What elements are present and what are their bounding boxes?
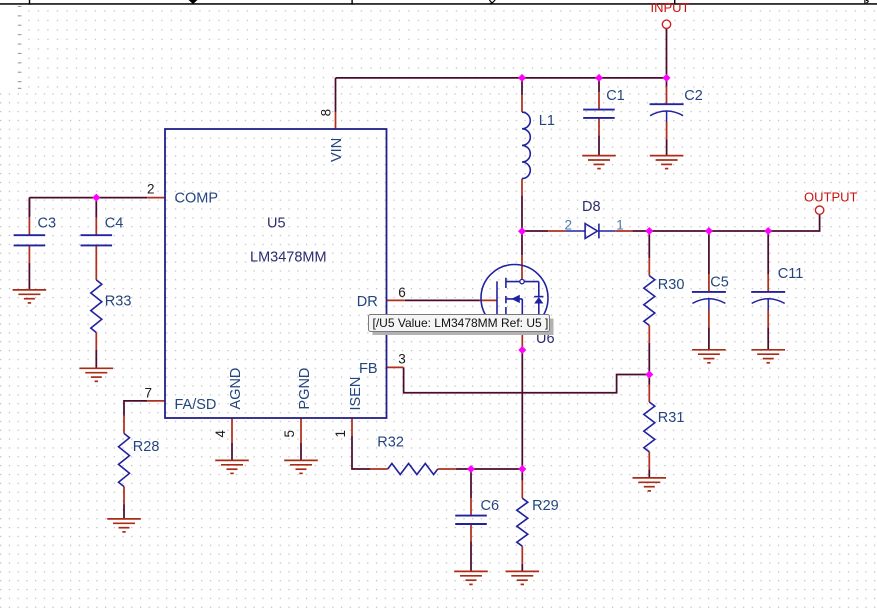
capacitor C6 plates [455, 516, 487, 524]
ground R28 [107, 519, 141, 532]
ground R33 [80, 368, 114, 381]
svg-text:4: 4 [213, 430, 228, 438]
capacitor C3 plates [14, 235, 46, 245]
svg-text:C2: C2 [684, 88, 703, 104]
svg-text:C5: C5 [710, 275, 729, 291]
inductor L1 leads [521, 95, 523, 195]
svg-text:6: 6 [398, 285, 406, 300]
page border line [0, 3, 877, 4]
ground AGND [215, 460, 249, 473]
diode D8 [566, 224, 616, 239]
svg-text:FB: FB [359, 361, 378, 377]
svg-text:VIN: VIN [329, 138, 345, 162]
junction node OUT/C11 [764, 227, 772, 235]
junction node R32/C6 [467, 465, 475, 473]
junction node SW/L1/D8 [518, 227, 526, 235]
svg-text:L1: L1 [539, 113, 555, 129]
resistor R28 leads [123, 504, 125, 519]
junction node OUT/C5 [705, 227, 713, 235]
capacitor C6 leads [470, 469, 472, 498]
svg-text:LM3478MM: LM3478MM [250, 249, 327, 265]
ground R29 [506, 571, 540, 584]
svg-text:R32: R32 [377, 434, 404, 450]
svg-text:R28: R28 [133, 439, 160, 455]
svg-text:2: 2 [147, 181, 155, 196]
inductor L1 coil [522, 112, 530, 178]
wire net DR gate [405, 299, 480, 301]
ground R31 [633, 478, 667, 491]
ground C1 [582, 156, 616, 169]
wire net OUTPUT row [632, 215, 819, 231]
resistor R31 leads [648, 375, 650, 385]
svg-text:C1: C1 [606, 88, 625, 104]
resistor R32 zigzag [388, 464, 438, 475]
ground PGND [284, 460, 318, 473]
svg-text:1: 1 [616, 217, 624, 232]
capacitor C1 plates [583, 110, 615, 118]
ground C6 [454, 571, 488, 584]
svg-text:7: 7 [145, 385, 153, 400]
capacitor C11 leads [767, 231, 769, 274]
capacitor C3 leads [28, 198, 30, 218]
svg-text:D8: D8 [582, 199, 601, 215]
junction node rail/C2/INPUT [663, 74, 671, 82]
wire SW node to Q6 drain [521, 231, 523, 255]
svg-text:R30: R30 [658, 277, 685, 293]
junction node rail/L1 [518, 74, 526, 82]
svg-text:C6: C6 [481, 498, 500, 514]
svg-text:3: 3 [398, 352, 406, 367]
ground C2 [650, 156, 684, 169]
svg-text:C11: C11 [778, 266, 804, 282]
wire AGND to ground [231, 443, 233, 460]
capacitor C5 plates (polarized) [692, 292, 726, 310]
svg-text:DR: DR [357, 294, 378, 310]
svg-text:R29: R29 [532, 498, 559, 514]
transistor Q6 MOSFET [481, 265, 548, 333]
svg-text:U5: U5 [267, 215, 286, 231]
wire net COMP [29, 198, 147, 216]
junction node Q6 source [518, 346, 526, 354]
svg-text:C3: C3 [38, 216, 57, 232]
capacitor C4 leads [95, 198, 97, 218]
resistor R29 leads [521, 469, 523, 481]
junction node OUT/D8/R30 [645, 227, 653, 235]
resistor R33 zigzag [91, 280, 102, 333]
junction node R29 [518, 465, 526, 473]
wire net FA/SD [124, 401, 147, 416]
capacitor C5 leads [708, 231, 710, 274]
ground C11 [751, 350, 785, 363]
svg-text:R33: R33 [105, 294, 132, 310]
capacitor C4 plates [81, 235, 113, 245]
transistor Q6 pin leads [480, 255, 523, 350]
ground C5 [692, 350, 726, 363]
resistor R28 zigzag [119, 433, 130, 486]
diode D8 leads [522, 230, 548, 232]
resistor R30 zigzag [644, 276, 655, 326]
wire net FB route [404, 367, 650, 392]
svg-text:COMP: COMP [175, 191, 219, 207]
junction node COMP/C4 [92, 194, 100, 202]
svg-text:ISEN: ISEN [348, 377, 364, 411]
svg-text:1: 1 [333, 430, 348, 438]
svg-text:AGND: AGND [228, 368, 244, 410]
wire net ISEN [352, 436, 522, 469]
tooltip popup [369, 315, 554, 336]
op-amp U5 IC body LM3478MM [165, 129, 387, 418]
svg-text:5: 5 [282, 430, 297, 438]
svg-text:PGND: PGND [297, 368, 313, 410]
wire net source to R29/C6 [521, 350, 523, 469]
resistor R30 leads [648, 231, 650, 258]
svg-text:C4: C4 [105, 216, 124, 232]
resistor R31 zigzag [644, 402, 655, 452]
capacitor C2 plates (polarized) [650, 104, 684, 122]
ground C3 [13, 290, 47, 303]
svg-text:R31: R31 [658, 410, 685, 426]
IC U5 pin leads [147, 112, 405, 443]
resistor R32 leads [370, 468, 455, 470]
svg-text:OUTPUT: OUTPUT [804, 190, 858, 205]
resistor R29 zigzag [517, 498, 528, 546]
capacitor C2 leads [666, 78, 668, 87]
svg-text:INPUT: INPUT [651, 0, 690, 15]
wire net INPUT rail [336, 29, 667, 112]
svg-text:FA/SD: FA/SD [175, 397, 217, 413]
wire L1 to SW node [521, 196, 523, 232]
capacitor C11 plates (polarized) [751, 292, 785, 310]
capacitor C1 leads [598, 78, 600, 92]
resistor R33 lead [95, 333, 97, 351]
junction node rail/C1 [595, 74, 603, 82]
svg-text:8: 8 [319, 109, 334, 117]
wire PGND to ground [300, 443, 302, 460]
svg-text:2: 2 [565, 217, 573, 232]
svg-text:[/U5 Value: LM3478MM Ref: U5 ]: [/U5 Value: LM3478MM Ref: U5 ] [373, 316, 549, 330]
junction node R30/R31/FB [645, 371, 653, 379]
